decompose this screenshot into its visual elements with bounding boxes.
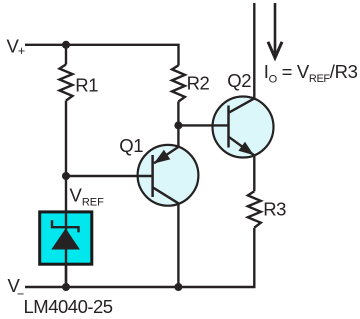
transistor Q2 collector line bbox=[229, 98, 255, 112]
svg-text:R2: R2 bbox=[187, 73, 210, 94]
node dot Q1 collector / bottom rail junction bbox=[174, 283, 182, 291]
zener diode LM4040-25 box bbox=[40, 212, 92, 264]
zener diode triangle bbox=[51, 228, 80, 249]
wire Q1 collector lead to bottom rail bbox=[177, 203, 179, 287]
svg-text:Q2: Q2 bbox=[227, 70, 251, 91]
wire R2 bottom lead bbox=[177, 102, 179, 126]
wire R1 top lead bbox=[65, 45, 67, 65]
transistor Q2 bbox=[213, 97, 274, 158]
wire Q2 emitter lead to R3 bbox=[253, 155, 255, 191]
transistor Q2 base bar bbox=[227, 106, 230, 148]
node dot V+ / R1 junction bbox=[62, 41, 70, 49]
svg-text:+: + bbox=[18, 44, 25, 58]
current direction arrow IO bbox=[274, 3, 277, 54]
svg-text:Q1: Q1 bbox=[119, 135, 143, 156]
transistor Q1 emitter line bbox=[154, 147, 178, 163]
wire R1 bottom lead to VREF node bbox=[65, 101, 67, 176]
wire top rail from V+ to R2 corner bbox=[25, 45, 179, 66]
svg-text:R3: R3 bbox=[263, 199, 286, 220]
wire R3 bottom lead and bottom rail bbox=[25, 228, 254, 287]
transistor Q1 bbox=[138, 145, 199, 206]
resistor R3 bbox=[248, 191, 261, 228]
transistor Q1 base bar bbox=[151, 155, 154, 197]
resistor R1 bbox=[60, 64, 73, 100]
transistor Q2 emitter line bbox=[229, 137, 255, 156]
zener diode cathode bar bbox=[52, 220, 79, 232]
wire Q1 base wire bbox=[66, 175, 152, 177]
transistor Q1 emitter arrow bbox=[154, 150, 171, 164]
wire Q1 emitter lead bbox=[177, 125, 179, 146]
svg-text:LM4040-25: LM4040-25 bbox=[24, 296, 113, 317]
transistor Q1 collector line bbox=[153, 187, 179, 203]
svg-text:R1: R1 bbox=[75, 75, 98, 96]
resistor R2 bbox=[172, 65, 185, 101]
wire VREF node down through LM4040 to bottom rail bbox=[65, 176, 67, 287]
node dot VREF junction bbox=[62, 172, 70, 180]
wire through zener box redrawn bbox=[65, 211, 67, 287]
node dot R2 / Q1 emitter / Q2 base junction bbox=[174, 121, 182, 129]
wire Q2 base wire bbox=[178, 124, 227, 126]
transistor Q2 emitter arrow bbox=[238, 142, 253, 155]
wire Q2 collector lead to top edge bbox=[253, 3, 255, 98]
node dot LM4040 anode / bottom rail junction bbox=[62, 283, 70, 291]
